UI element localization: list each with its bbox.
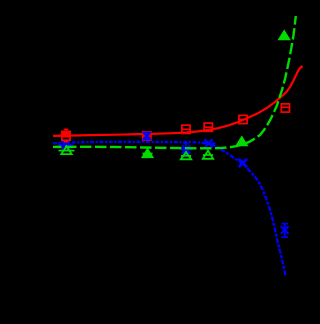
blue point 6 error bar <box>281 224 288 238</box>
red point 5 x-error line <box>239 119 247 121</box>
blue point 4 X marker <box>204 139 212 147</box>
red point 6 x-error line <box>281 106 289 108</box>
blue dash-dot fit curve (steep section) <box>211 144 286 276</box>
green point 2 x-error line <box>142 153 152 155</box>
blue point 3 X marker <box>182 145 190 153</box>
blue point 2 error bar <box>144 132 149 139</box>
red solid fit curve <box>53 67 303 136</box>
red point 2 x-error line <box>143 135 151 137</box>
blue point 5 X marker <box>239 159 247 167</box>
blue point 3 error bar <box>184 144 189 156</box>
red point 5 square marker <box>239 115 247 123</box>
green point 1 triangle marker <box>61 146 71 154</box>
green point 3 x-error line <box>181 155 191 157</box>
red point 1 x-error line <box>58 135 74 137</box>
blue point 2 X marker <box>143 132 151 140</box>
red point 1 square marker (mostly filled look) <box>62 132 70 138</box>
blue point 1 error bar <box>64 141 68 149</box>
blue point 1 x-error line <box>58 144 73 146</box>
blue point 6 X marker <box>281 226 289 234</box>
red point 4 x-error line <box>204 126 212 128</box>
red point 3 square marker <box>182 125 190 133</box>
blue dash-dot fit curve (flat section) <box>53 142 211 144</box>
blue point 4 x-error line <box>202 142 216 144</box>
green point 4 x-error line <box>203 154 213 156</box>
blue point 1 X marker <box>62 141 70 149</box>
red point 2 square marker <box>143 132 151 140</box>
red point 6 square marker <box>281 104 289 112</box>
green point 6 triangle marker (filled) <box>279 31 290 40</box>
red point 4 square marker <box>204 123 212 131</box>
green point 4 triangle marker <box>203 151 213 159</box>
red point 1 error bar <box>64 129 68 141</box>
green long-dash fit curve <box>53 16 296 148</box>
red point 3 x-error line <box>182 128 190 130</box>
green point 2 triangle marker <box>142 149 152 157</box>
green point 3 triangle marker <box>181 152 191 159</box>
blue point 3 x-error line <box>180 149 193 151</box>
green point 5 triangle marker (filled) <box>237 137 248 146</box>
green point 1 x-error line <box>59 150 75 152</box>
